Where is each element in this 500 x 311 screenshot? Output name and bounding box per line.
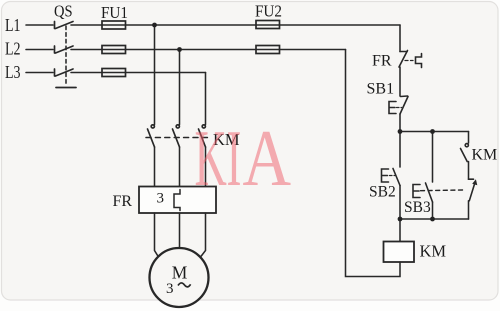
motor M circle bbox=[150, 248, 209, 307]
svg-text:FR: FR bbox=[372, 53, 392, 70]
wire pole3 to FR box bbox=[205, 147, 207, 187]
KM aux NO contact bbox=[461, 144, 469, 162]
fuse FU1 c bbox=[102, 69, 126, 77]
wire SB2 to bottom bus bbox=[399, 186, 401, 220]
wire coil return bbox=[346, 50, 401, 277]
node L3 wire bbox=[26, 72, 53, 74]
thermal relay FR box bbox=[139, 187, 216, 214]
fuse FU2 a bbox=[256, 21, 280, 29]
junction L1 bbox=[152, 23, 157, 28]
switch QS pole 3 bbox=[55, 69, 74, 76]
control feed vertical from L1 bbox=[399, 25, 401, 52]
wire L1 to control corner bbox=[71, 24, 400, 26]
pushbutton SB1 NC bbox=[389, 96, 408, 114]
node L1 wire bbox=[26, 24, 53, 26]
coil KM bbox=[384, 242, 415, 263]
svg-text:FR: FR bbox=[113, 193, 133, 210]
junction top bus left bbox=[398, 129, 403, 134]
switch QS pole 1 bbox=[55, 22, 74, 29]
svg-text:3: 3 bbox=[166, 281, 174, 297]
fuse FU2 b bbox=[256, 46, 280, 54]
svg-text:SB1: SB1 bbox=[367, 81, 395, 98]
svg-text:L1: L1 bbox=[5, 16, 21, 35]
wire L3 bbox=[71, 72, 206, 74]
svg-text:M: M bbox=[172, 263, 188, 283]
FR thermal element symbol bbox=[416, 54, 422, 68]
wire FR box to motor mid bbox=[179, 213, 181, 248]
motor tilde bbox=[178, 283, 191, 287]
FR NC contact bbox=[399, 51, 408, 68]
wire KM aux mid bbox=[468, 162, 470, 180]
svg-text:SB2: SB2 bbox=[369, 184, 396, 201]
pushbutton SB3 NO bbox=[432, 132, 434, 183]
wire FR box to motor right bbox=[201, 213, 206, 257]
KM main linkage dashed bbox=[146, 137, 208, 139]
wire L2 to right vertical bbox=[71, 49, 346, 51]
bottom branch bus bbox=[400, 218, 469, 220]
wire SB1 to node bbox=[399, 114, 401, 132]
node L2 wire bbox=[26, 49, 53, 51]
wire FR box to motor left bbox=[155, 213, 159, 257]
svg-text:3: 3 bbox=[157, 191, 165, 207]
FR heater symbol bbox=[174, 190, 180, 211]
svg-text:SB3: SB3 bbox=[404, 199, 431, 216]
contactor KM main pole 1 bbox=[148, 125, 155, 147]
svg-text:KM: KM bbox=[472, 147, 498, 164]
svg-text:QS: QS bbox=[54, 3, 73, 21]
junction L2 bbox=[177, 47, 182, 52]
wire SB3 to bottom bus bbox=[432, 202, 434, 219]
svg-text:L2: L2 bbox=[5, 40, 21, 59]
FR link dash bbox=[405, 60, 413, 62]
switch QS pole 2 bbox=[55, 46, 74, 53]
svg-text:FU2: FU2 bbox=[255, 3, 282, 21]
contactor KM main pole 3 bbox=[199, 125, 206, 147]
svg-text:L3: L3 bbox=[5, 64, 21, 83]
fuse FU1 a bbox=[102, 21, 126, 29]
QS linkage dashed bbox=[65, 26, 67, 86]
SB3 NC contact in KM branch bbox=[469, 179, 478, 201]
KM aux branch corner bbox=[468, 132, 470, 144]
wire to bottom bus right bbox=[468, 201, 470, 219]
wire drop phase 2 bbox=[179, 50, 181, 125]
pushbutton SB2 NO bbox=[399, 132, 401, 168]
svg-text:K: K bbox=[195, 115, 227, 204]
svg-text:KM: KM bbox=[420, 242, 447, 261]
junction top bus mid bbox=[430, 129, 435, 134]
top branch bus bbox=[400, 131, 469, 133]
wire drop phase 1 bbox=[154, 25, 156, 125]
SB3 linkage dashed to KM NC bbox=[421, 189, 464, 192]
wire pole2 to FR box bbox=[179, 147, 181, 187]
svg-text:I: I bbox=[227, 115, 242, 204]
wire node to coil bbox=[399, 219, 401, 242]
junction bottom bus mid bbox=[430, 217, 435, 222]
fuse FU1 b bbox=[102, 46, 126, 54]
svg-text:A: A bbox=[243, 114, 292, 203]
wire FR to SB1 bbox=[399, 67, 401, 96]
junction bottom bus left bbox=[398, 217, 403, 222]
wire drop phase 3 bbox=[205, 73, 207, 125]
svg-text:FU1: FU1 bbox=[101, 4, 128, 22]
contactor KM main pole 2 bbox=[173, 125, 180, 147]
QS linkage bar bbox=[56, 87, 76, 89]
wire pole1 to FR box bbox=[154, 147, 156, 187]
KIA watermark bbox=[195, 114, 292, 204]
